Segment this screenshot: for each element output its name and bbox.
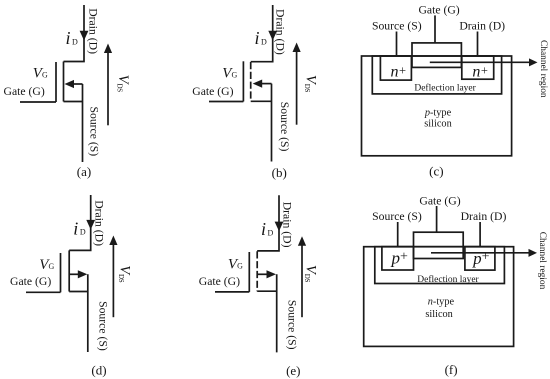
svg-text:Source (S): Source (S) (278, 102, 291, 152)
svg-text:(a): (a) (77, 164, 91, 179)
svg-text:iD: iD (73, 218, 86, 238)
wire: channel-to-source bottom link (e) (257, 290, 277, 292)
svg-text:Source (S): Source (S) (372, 19, 422, 32)
wire: source lead (b) (271, 84, 273, 162)
svg-text:p+: p+ (472, 249, 490, 268)
arrowhead: substrate arrow pointing right (e) (267, 270, 277, 278)
svg-text:Deflection layer: Deflection layer (414, 82, 476, 93)
wire: source lead (c) (396, 32, 398, 57)
svg-text:iD: iD (255, 28, 268, 48)
n+ drain region box (c) (462, 56, 494, 79)
gate electrode bar (d) (60, 253, 62, 292)
svg-text:n-type: n-type (428, 297, 455, 308)
wire: gate lead (f) (436, 206, 438, 232)
svg-text:VG: VG (33, 66, 48, 82)
svg-text:VDS: VDS (302, 75, 318, 93)
VDS arrow line (b) (296, 52, 298, 125)
substrate arrow wire (d) (69, 273, 79, 275)
deflection layer box (f) (375, 247, 505, 284)
VDS arrow line (a) (107, 53, 109, 126)
channel region arrow wire (f) (431, 252, 530, 254)
p+ drain region box (f) (465, 247, 495, 270)
arrowhead: VDS pointing up (a) (104, 44, 112, 54)
wire: channel-to-source bottom link (a) (64, 101, 83, 103)
arrowhead: channel region pointing right (c) (529, 58, 538, 66)
wire: drain lead (a) (64, 5, 85, 62)
gate electrode bar (a) (55, 62, 57, 102)
svg-text:p+: p+ (390, 249, 408, 268)
substrate arrow wire (a) (73, 83, 83, 85)
wire: drain lead (b) (251, 5, 273, 62)
svg-text:(d): (d) (91, 362, 106, 377)
svg-text:n+: n+ (391, 63, 407, 80)
svg-text:Drain (D): Drain (D) (281, 202, 294, 248)
n-type silicon body (f) (364, 247, 514, 347)
svg-text:Source (S): Source (S) (88, 106, 101, 156)
channel line (a) (63, 62, 65, 102)
svg-text:Gate (G): Gate (G) (199, 275, 240, 288)
svg-text:VDS: VDS (117, 265, 133, 283)
svg-text:VG: VG (228, 257, 243, 273)
svg-text:(c): (c) (429, 164, 443, 179)
wire: source lead (d) (87, 274, 89, 352)
substrate arrow wire (b) (261, 83, 272, 85)
svg-text:Drain (D): Drain (D) (86, 8, 99, 54)
wire: gate lead (c) (434, 15, 436, 43)
wire: drain lead (c) (477, 32, 479, 57)
svg-text:Source (S): Source (S) (372, 210, 422, 223)
wire: gate lead (d) (26, 291, 61, 293)
svg-text:iD: iD (261, 219, 274, 239)
arrowhead: VDS pointing up (b) (293, 43, 301, 53)
svg-text:VG: VG (222, 66, 237, 82)
svg-text:(f): (f) (445, 362, 458, 377)
svg-text:(e): (e) (286, 363, 300, 378)
svg-text:Deflection layer: Deflection layer (417, 274, 479, 285)
svg-text:Gate (G): Gate (G) (418, 3, 459, 16)
arrowhead: substrate arrow pointing left (b) (253, 80, 263, 88)
svg-text:VDS: VDS (303, 265, 319, 283)
svg-text:VDS: VDS (115, 75, 131, 93)
gate electrode box (c) (412, 43, 461, 68)
arrowhead: VDS pointing up (e) (298, 236, 306, 246)
wire: source lead (f) (397, 222, 399, 247)
svg-text:Gate (G): Gate (G) (419, 195, 460, 208)
svg-text:n+: n+ (472, 63, 488, 80)
channel region arrow wire (c) (430, 61, 530, 63)
wire: gate lead (a) (20, 101, 56, 103)
VDS arrow line (e) (301, 245, 303, 317)
arrowhead: drain current iD (d) (86, 220, 95, 230)
arrowhead: channel region pointing right (f) (529, 249, 538, 257)
svg-text:Drain (D): Drain (D) (93, 200, 106, 246)
svg-text:Drain (D): Drain (D) (273, 9, 286, 55)
arrowhead: drain current iD (e) (275, 222, 284, 232)
p+ source region box (f) (382, 247, 414, 270)
arrowhead: substrate arrow pointing right (d) (78, 270, 88, 278)
arrowhead: drain current iD (a) (80, 31, 89, 41)
wire: gate lead (e) (215, 291, 249, 293)
deflection layer box (c) (372, 56, 501, 94)
gate electrode bar (b) (242, 61, 244, 101)
arrowhead: substrate arrow pointing left (a) (65, 80, 75, 88)
svg-text:Gate (G): Gate (G) (10, 275, 51, 288)
svg-text:silicon: silicon (424, 119, 451, 130)
svg-text:Source (S): Source (S) (285, 300, 298, 350)
substrate arrow wire (e) (257, 273, 267, 275)
wire: source lead (e) (276, 274, 278, 352)
wire: gate lead (b) (209, 101, 243, 103)
wire: channel-to-source bottom link (d) (69, 291, 88, 293)
dashed channel line (e) (256, 251, 258, 291)
svg-text:VG: VG (39, 257, 54, 273)
n+ source region box (c) (380, 56, 411, 80)
wire: drain lead (d) (69, 195, 91, 250)
wire: channel-to-source bottom link (b) (251, 100, 272, 102)
svg-text:p-type: p-type (424, 107, 452, 118)
svg-text:Drain (D): Drain (D) (459, 20, 505, 33)
svg-text:iD: iD (66, 28, 79, 48)
arrowhead: drain current iD (b) (268, 31, 277, 41)
gate electrode box (f) (414, 232, 464, 258)
p-type silicon body (c) (362, 56, 512, 156)
gate electrode bar (e) (248, 252, 250, 292)
svg-text:(b): (b) (272, 165, 287, 180)
svg-text:silicon: silicon (425, 309, 452, 320)
VDS arrow line (d) (112, 245, 114, 318)
wire: drain lead (e) (257, 195, 279, 251)
svg-text:Source (S): Source (S) (96, 301, 109, 351)
svg-text:Channel region: Channel region (537, 232, 547, 290)
svg-text:Gate (G): Gate (G) (4, 85, 45, 98)
svg-text:Drain (D): Drain (D) (461, 210, 507, 223)
wire: source lead (a) (82, 84, 84, 162)
svg-text:Gate (G): Gate (G) (192, 85, 233, 98)
arrowhead: VDS pointing up (d) (109, 236, 117, 246)
svg-text:Channel region: Channel region (538, 40, 548, 98)
dashed channel line (b) (250, 62, 252, 101)
wire: drain lead (f) (479, 222, 481, 247)
channel line (d) (68, 250, 70, 291)
